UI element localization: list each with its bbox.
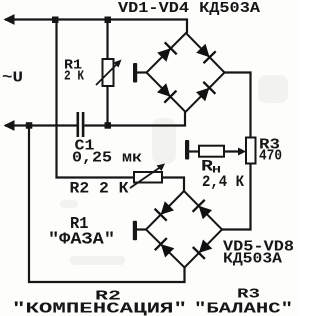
svg-text:"КОМПЕНСАЦИЯ": "КОМПЕНСАЦИЯ" <box>12 301 187 316</box>
svg-text:"БАЛАНС": "БАЛАНС" <box>194 301 293 316</box>
svg-text:~U: ~U <box>2 70 23 87</box>
svg-text:2,4 К: 2,4 К <box>202 173 244 191</box>
svg-text:2 К: 2 К <box>64 69 84 85</box>
svg-text:VD1-VD4 КД503А: VD1-VD4 КД503А <box>118 0 260 17</box>
svg-text:0,25 мк: 0,25 мк <box>72 150 142 167</box>
svg-text:"ФАЗА": "ФАЗА" <box>48 231 115 250</box>
svg-text:R2 2 К: R2 2 К <box>70 180 129 198</box>
svg-text:КД503А: КД503А <box>223 251 282 268</box>
svg-text:470: 470 <box>259 148 282 165</box>
